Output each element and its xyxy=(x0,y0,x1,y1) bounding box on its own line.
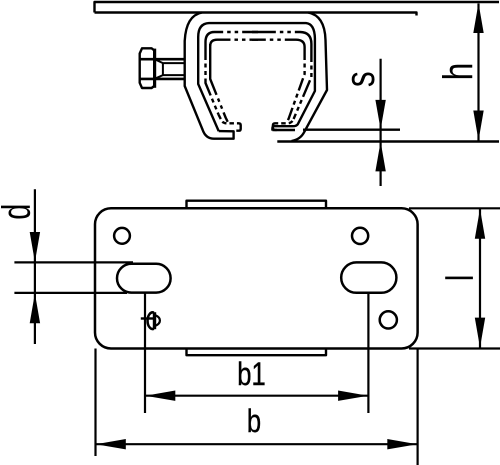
b right arrow xyxy=(387,439,417,449)
b dimension line xyxy=(96,443,418,445)
phantom C-rail outer top-right corner (dash-dot-dot) xyxy=(252,32,311,44)
screw head outline (plan) xyxy=(148,312,154,329)
hole top-right xyxy=(352,228,368,244)
dimension line h xyxy=(477,4,479,141)
dimension line s xyxy=(380,59,382,186)
clamp outer contour left part xyxy=(185,13,234,139)
h top arrow (up) xyxy=(473,3,483,33)
phantom C-rail inner right wall (dash-dot-dot) xyxy=(287,47,304,122)
d upper arrow (down) xyxy=(30,232,40,262)
hole top-left xyxy=(114,228,130,244)
bolt head face xyxy=(153,49,156,88)
l bottom arrow (down) xyxy=(475,318,485,348)
rail tab top xyxy=(187,201,327,209)
h bottom arrow (down) xyxy=(473,111,483,141)
phantom C-rail outer top-left corner (dash-dot-dot) xyxy=(206,32,259,42)
slot right xyxy=(341,262,396,292)
l extension lines xyxy=(409,208,500,348)
phantom C-rail right lip hook (dash-dot-dot) xyxy=(273,119,294,130)
mounting plate plan xyxy=(95,208,418,348)
phantom C-rail inner top-right corner (dash-dot-dot) xyxy=(252,40,305,47)
l top arrow (up) xyxy=(475,209,485,239)
b left arrow xyxy=(96,439,126,449)
b1 extension lines xyxy=(145,293,368,413)
screw head dome tip xyxy=(156,315,160,325)
clamp outer contour right part xyxy=(292,13,328,142)
clamped strip bottom surface xyxy=(277,140,499,142)
bolt head facet lines / shaft outline xyxy=(140,59,186,79)
l dimension line xyxy=(479,208,481,347)
label l (drawn as bar) xyxy=(445,277,473,280)
b extension lines xyxy=(96,349,418,465)
phantom C-rail outer right wall (dash-dot-dot) xyxy=(294,44,312,119)
d lower arrow (up) xyxy=(30,293,40,323)
phantom C-rail inner left wall (dash-dot-dot) xyxy=(210,44,228,122)
clamped strip top surface xyxy=(272,128,400,131)
rail tab bottom xyxy=(187,349,327,356)
b1 dimension line xyxy=(145,395,368,397)
svg-text:b1: b1 xyxy=(237,357,265,392)
svg-text:b: b xyxy=(247,404,261,439)
s lower arrow (up) xyxy=(375,142,385,172)
screw head chord face xyxy=(153,312,156,329)
d dimension line xyxy=(34,189,36,344)
screw slot line xyxy=(141,317,156,319)
s upper arrow (down) xyxy=(375,100,385,129)
phantom C-rail outer left wall (dash-dot-dot) xyxy=(206,42,219,115)
b1 right arrow xyxy=(338,391,368,401)
bolt thread root xyxy=(156,60,186,78)
clamp inner contour xyxy=(198,23,315,131)
b1 left arrow xyxy=(145,391,175,401)
slot left xyxy=(117,264,171,293)
mounting plate bottom edge (side view) xyxy=(95,13,417,16)
hole bottom-right xyxy=(380,311,397,328)
svg-text:d: d xyxy=(0,204,39,220)
phantom C-rail inner top-left corner (dash-dot-dot) xyxy=(210,40,258,46)
svg-text:h: h xyxy=(434,63,482,81)
mounting plate top edge (side view) xyxy=(95,2,500,13)
d extension lines xyxy=(14,262,133,293)
bolt head (hex, side view) xyxy=(140,48,155,88)
svg-text:s: s xyxy=(336,71,384,87)
phantom C-rail left lip hook (dash-dot-dot) xyxy=(219,115,241,131)
